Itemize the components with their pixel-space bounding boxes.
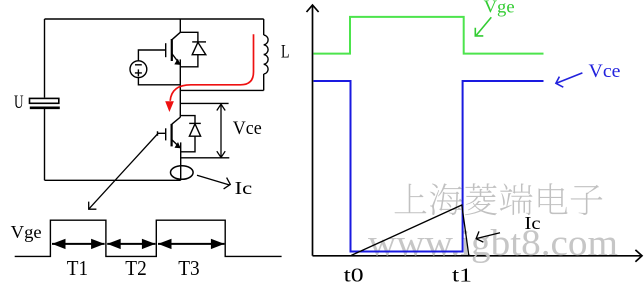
gate drive source V1 xyxy=(130,61,147,78)
svg-text:t0: t0 xyxy=(344,266,364,287)
svg-text:T1: T1 xyxy=(67,256,88,280)
trace Ic ramp (black) xyxy=(351,205,469,255)
current probe ellipse xyxy=(171,166,194,180)
diode D1 (upper freewheel) xyxy=(180,32,206,67)
Vge drive waveform xyxy=(15,220,282,256)
transistor Q2 (lower IGBT) xyxy=(158,117,181,180)
inductor L coil xyxy=(264,19,268,90)
svg-text:Vce: Vce xyxy=(589,61,621,82)
Ic pointer arrow xyxy=(476,231,500,242)
blue pointer arrow xyxy=(556,73,583,87)
wire: source return to center node xyxy=(138,78,180,85)
Q2 emitter arrowhead xyxy=(175,142,181,148)
svg-text:Ic: Ic xyxy=(235,178,253,198)
chart y-axis xyxy=(307,5,319,256)
svg-text:T3: T3 xyxy=(178,256,199,280)
Q1 emitter arrowhead xyxy=(174,59,180,65)
watermark 上海菱端电子 xyxy=(395,183,603,215)
wire: collector stub Q1 xyxy=(179,19,181,32)
wire: bottom rail xyxy=(45,179,181,181)
T1 interval arrow xyxy=(52,239,105,249)
svg-text:Vge: Vge xyxy=(484,0,515,16)
svg-text:t1: t1 xyxy=(452,266,472,287)
chart x-axis xyxy=(313,250,643,262)
red load current path xyxy=(170,34,253,101)
T3 interval arrow xyxy=(158,239,224,249)
green pointer arrow xyxy=(475,17,491,36)
svg-text:Ic: Ic xyxy=(525,213,541,233)
diode D2 (lower freewheel) xyxy=(181,116,201,152)
pointer arrow from waveform to Q2 gate xyxy=(89,134,158,209)
svg-text:www.igbt8.com: www.igbt8.com xyxy=(368,222,618,263)
trace Vge (green) xyxy=(314,17,544,54)
svg-text:Vce: Vce xyxy=(233,118,262,139)
svg-text:U: U xyxy=(14,93,24,113)
svg-text:T2: T2 xyxy=(125,256,146,280)
capacitor U (DC bus source) xyxy=(30,98,60,107)
svg-text:L: L xyxy=(281,43,290,63)
T2 interval arrow xyxy=(107,239,155,249)
red arrowhead xyxy=(165,101,174,112)
wire: mid rail to inductor xyxy=(180,89,263,91)
Vce measurement reference lines xyxy=(180,103,229,157)
trace Vce (blue) xyxy=(314,81,544,252)
Ic arrow (circuit) xyxy=(197,175,230,189)
wire: left bus vertical xyxy=(44,19,46,180)
svg-text:Vge: Vge xyxy=(11,222,42,242)
wire: top rail xyxy=(45,18,264,20)
transistor Q1 (upper IGBT) xyxy=(138,32,180,117)
Vce double arrow xyxy=(217,104,225,157)
